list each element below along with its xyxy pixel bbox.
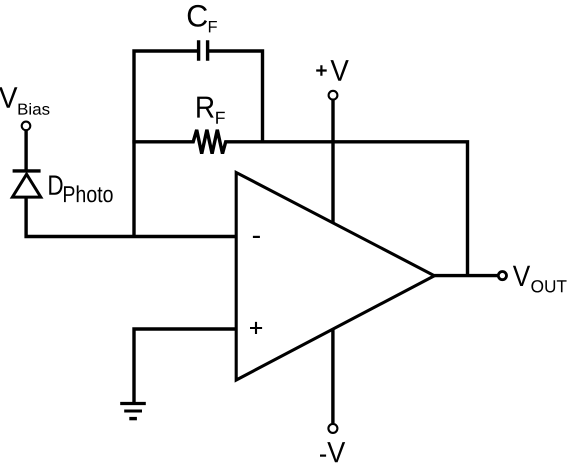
capacitor C_F plates (199, 40, 208, 60)
terminal -V (328, 424, 337, 433)
label D_Photo (49, 176, 62, 195)
ground bar 3 (129, 417, 137, 420)
wire top feedback right + right vertical down to RF wire (208, 51, 263, 142)
ground bar 2 (124, 410, 142, 413)
op-amp non-inverting input plus sign (250, 322, 262, 334)
terminal V_Bias (22, 122, 31, 131)
label V_OUT (513, 266, 530, 286)
wire diode anode lead + inverting input wire (26, 196, 236, 237)
wire top feedback left + left vertical to inverting node (134, 51, 199, 237)
wire output from op-amp tip to terminal (434, 274, 498, 277)
wire +V supply lead (331, 100, 334, 255)
label C_F (188, 5, 207, 27)
wire -V supply lead (331, 305, 334, 423)
resistor R_F zigzag with wire run and right vertical down to output (132, 130, 467, 276)
photodiode D_Photo triangle (12, 174, 40, 197)
wire non-inverting input + ground lead (134, 329, 236, 402)
photodiode cathode bar (13, 169, 41, 172)
terminal +V (329, 91, 338, 100)
ground bar 1 (120, 402, 146, 405)
wire V_Bias lead from terminal to diode (24, 130, 27, 171)
label R_F (197, 97, 214, 118)
op-amp inverting input minus sign (253, 236, 260, 238)
label -V (320, 455, 326, 457)
label V_Bias (0, 87, 17, 108)
label +V (316, 65, 327, 75)
terminal V_OUT (498, 272, 506, 280)
op-amp U1 triangle (236, 173, 434, 381)
